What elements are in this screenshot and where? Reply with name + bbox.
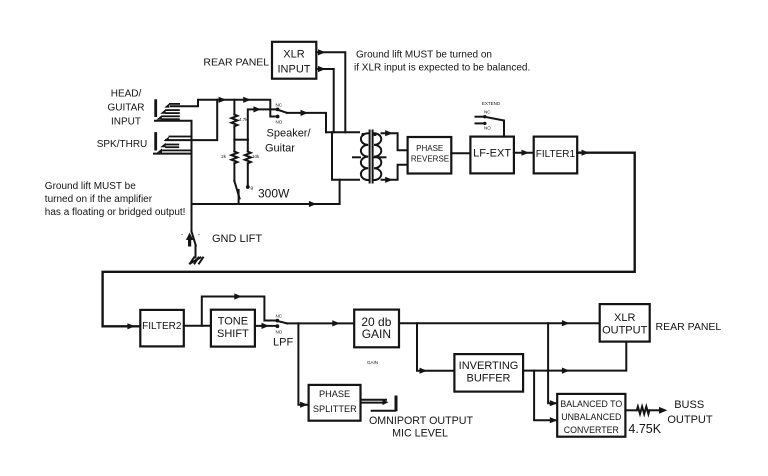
wire B: resistor node to switch S1 throw NC (248, 106, 276, 139)
switch S5 LPF (276, 314, 288, 335)
svg-text:NO: NO (484, 126, 491, 131)
svg-text:XLR: XLR (614, 312, 635, 324)
wire: J2 tip feed up to wire A (166, 100, 217, 140)
svg-text:REAR PANEL: REAR PANEL (656, 321, 722, 333)
jack J1 HEAD/GUITAR INPUT (154, 99, 180, 120)
label Speaker/Guitar (265, 128, 311, 155)
BALANCED TO UNBALANCED CONVERTER box (557, 394, 625, 437)
svg-text:OUTPUT: OUTPUT (602, 324, 648, 336)
resistor R1 (top, on L1) (231, 100, 248, 140)
svg-text:has a floating or bridged outp: has a floating or bridged output! (45, 207, 186, 218)
svg-text:XLR: XLR (283, 48, 304, 60)
wire: FILTER1 loop to FILTER2 (103, 150, 635, 330)
svg-text:REVERSE: REVERSE (411, 155, 449, 164)
svg-text:EXTEND: EXTEND (482, 101, 501, 106)
PHASE SPLITTER box (309, 385, 361, 421)
svg-text:LF-EXT: LF-EXT (473, 148, 511, 160)
primary center tap stub (353, 156, 360, 158)
label HEAD/GUITAR INPUT (107, 89, 144, 128)
wire: 20db gain to XLR OUTPUT (399, 320, 600, 326)
wire: node LPF down to phase splitter (298, 323, 308, 407)
wire: buffer branch to balanced converter input 2 (534, 371, 557, 424)
wire: branch to balanced converter input 1 (548, 323, 557, 406)
svg-text:REAR PANEL: REAR PANEL (203, 57, 269, 69)
label BUSS OUTPUT (667, 399, 713, 426)
svg-text:Guitar: Guitar (265, 143, 295, 155)
wire: LF-EXT to FILTER1 (514, 150, 534, 156)
svg-text:HEAD/: HEAD/ (111, 89, 142, 100)
svg-text:2k: 2k (221, 154, 227, 159)
wire: secondary bottom to phase reverse (382, 165, 408, 183)
TONE SHIFT box (211, 310, 255, 347)
wire: secondary top to phase reverse (382, 130, 408, 150)
INVERTING BUFFER box (454, 354, 523, 392)
svg-text:NO: NO (276, 330, 283, 335)
wire: tone shift bypass to switch S5 NC (202, 293, 276, 325)
note: ground lift amplifier text (45, 181, 186, 218)
secondary center tap stub (373, 156, 386, 158)
switch S1 Speaker/Guitar (276, 103, 288, 125)
wire: J2 sleeve (154, 153, 192, 155)
wire: phase reverse to LF-EXT (451, 152, 470, 154)
svg-text:Speaker/: Speaker/ (267, 128, 312, 140)
svg-text:OUTPUT: OUTPUT (667, 414, 713, 426)
svg-text:Ground lift MUST be: Ground lift MUST be (45, 181, 136, 192)
transformer T1 (326, 131, 386, 183)
svg-text:4.75K: 4.75K (628, 422, 661, 436)
label OMNIPORT OUTPUT / MIC LEVEL (369, 415, 474, 440)
svg-text:SPLITTER: SPLITTER (313, 404, 357, 414)
svg-text:UNBALANCED: UNBALANCED (561, 412, 621, 422)
svg-text:Ground lift MUST be turned on: Ground lift MUST be turned on (356, 50, 492, 61)
FILTER2 box (140, 310, 184, 347)
resistor R2 (on L1, lower) (221, 140, 237, 181)
primary connection frame (326, 131, 359, 133)
switch S3 GND LIFT (182, 204, 201, 258)
svg-text:PHASE: PHASE (319, 389, 350, 399)
wire XLR input pin3 to transformer top rail (316, 66, 333, 132)
svg-text:NO: NO (276, 120, 283, 125)
svg-text:INPUT: INPUT (278, 63, 311, 75)
svg-text:4.7k: 4.7k (239, 117, 248, 122)
chassis ground symbol (190, 258, 203, 264)
svg-text:INVERTING: INVERTING (459, 360, 519, 372)
svg-text:INPUT: INPUT (111, 117, 141, 128)
svg-text:300W: 300W (258, 187, 290, 201)
wire: switch S1 to transformer primary (287, 110, 326, 133)
svg-text:SPK/THRU: SPK/THRU (97, 139, 148, 150)
wire: switch S5 to 20db gain (287, 320, 354, 326)
jack J2 SPK/THRU (154, 132, 190, 153)
svg-text:BUSS: BUSS (674, 399, 704, 411)
LF-EXT box (470, 137, 514, 174)
wire: FILTER2 to TONE SHIFT (184, 325, 211, 327)
switch S4 EXTEND (476, 101, 505, 137)
XLR OUTPUT box (600, 304, 650, 342)
svg-text:FILTER2: FILTER2 (142, 321, 182, 332)
svg-text:NC: NC (484, 110, 491, 115)
core (369, 131, 371, 183)
svg-text:SHIFT: SHIFT (217, 328, 249, 340)
20 db GAIN box (354, 310, 399, 348)
svg-text:GAIN: GAIN (362, 327, 391, 341)
secondary winding (374, 133, 381, 180)
svg-text:OMNIPORT OUTPUT: OMNIPORT OUTPUT (369, 415, 474, 427)
svg-text:LPF: LPF (273, 337, 293, 349)
resistor R4 4.75K and buss output wire (625, 407, 667, 414)
polarity dot primary (361, 133, 364, 136)
svg-text:BALANCED TO: BALANCED TO (560, 399, 622, 409)
primary winding (361, 133, 368, 180)
svg-text:turned on if the amplifier: turned on if the amplifier (45, 194, 153, 205)
svg-text:BUFFER: BUFFER (467, 372, 511, 384)
resistor ladder node link (234, 139, 247, 141)
resistor R3 (on L2) (245, 140, 260, 186)
polarity dot secondary (373, 133, 376, 136)
omniport connector symbol (361, 396, 398, 412)
note: ground lift XLR text (354, 50, 530, 74)
wire: TONE SHIFT out to switch S5 NO (255, 323, 276, 329)
wire A: J1 tip to switch S1 throw NO (171, 97, 276, 117)
FILTER1 box (534, 137, 578, 174)
wire XLR input pin2 to transformer top rail (316, 49, 345, 132)
svg-text:FILTER1: FILTER1 (536, 149, 576, 160)
wire: ground rail to transformer primary bottom (192, 180, 340, 207)
switch S2 300W load (234, 181, 253, 204)
XLR INPUT box (272, 42, 316, 79)
svg-text:NC: NC (276, 314, 283, 319)
svg-text:CONVERTER: CONVERTER (564, 425, 619, 435)
svg-text:10k: 10k (252, 154, 260, 159)
svg-text:NC: NC (276, 103, 283, 108)
svg-text:if XLR input is expected to be: if XLR input is expected to be balanced. (354, 63, 530, 74)
svg-text:GUITAR: GUITAR (107, 103, 144, 114)
svg-text:MIC LEVEL: MIC LEVEL (392, 428, 448, 440)
wire: J1 sleeve down to ground rail (155, 121, 192, 204)
PHASE REVERSE box (408, 137, 452, 174)
svg-text:TONE: TONE (218, 316, 248, 328)
wire: branch down to inverting buffer (417, 323, 454, 374)
svg-text:GAIN: GAIN (367, 360, 378, 365)
svg-text:GND LIFT: GND LIFT (212, 233, 262, 245)
svg-text:PHASE: PHASE (416, 144, 443, 153)
wire: inverting buffer to XLR OUTPUT pin3 (523, 342, 626, 374)
